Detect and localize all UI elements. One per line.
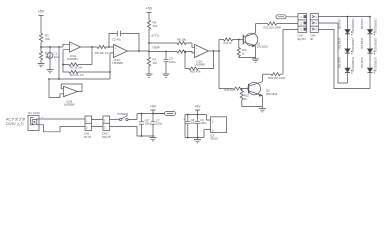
- ground under C1: [47, 70, 54, 73]
- svg-text:EQ-B4: EQ-B4: [298, 37, 307, 41]
- transistor Q2: [248, 74, 278, 106]
- resistor R10 47k feedback op3: [184, 51, 213, 74]
- svg-text:-: -: [65, 87, 66, 91]
- ground under Q1: [252, 58, 259, 63]
- svg-text:+5V: +5V: [38, 10, 45, 14]
- wire jack pin1: [39, 115, 85, 119]
- svg-text:+5V: +5V: [194, 105, 201, 109]
- test point TP1: [276, 15, 298, 19]
- wire rail1 to op3: [149, 42, 177, 44]
- svg-text:1: 1: [300, 15, 302, 19]
- svg-text:R5 10k 1%: R5 10k 1%: [95, 51, 109, 55]
- capacitor C3 100n: [164, 51, 177, 74]
- svg-text:C2 47p: C2 47p: [112, 38, 121, 42]
- svg-text:10u: 10u: [191, 121, 196, 125]
- capacitor C1 10u: [45, 46, 59, 69]
- svg-text:LED4 RD: LED4 RD: [360, 19, 364, 30]
- svg-text:2SC1815: 2SC1815: [266, 92, 278, 96]
- ground bottom rail 9V: [150, 136, 157, 141]
- wire LED column 1: [347, 17, 349, 83]
- svg-text:OSDR5113A: OSDR5113A: [351, 38, 355, 53]
- svg-text:OSDR5113A: OSDR5113A: [351, 57, 355, 72]
- svg-text:100n: 100n: [145, 122, 152, 126]
- svg-text:LED3 RD: LED3 RD: [338, 57, 342, 68]
- svg-text:1: 1: [315, 15, 317, 19]
- resistor R8 10k: [177, 38, 195, 48]
- wire drop to lower loop: [58, 46, 60, 79]
- resistor R12 1k base-emitter: [237, 39, 255, 58]
- ground 5V rail: [194, 137, 201, 143]
- connector CN3: [298, 14, 307, 41]
- svg-text:3: 3: [315, 27, 317, 31]
- connector CN2: [102, 116, 111, 139]
- test point TP2 fuse: [153, 112, 176, 116]
- op-amp U1B buffer: [49, 79, 82, 106]
- label AC adapter: [6, 117, 26, 127]
- resistor R15 1k base-emitter Q2: [240, 88, 262, 107]
- capacitor C8 10u: [183, 114, 195, 139]
- LED D3: [338, 57, 355, 73]
- wire LED top rail: [318, 16, 371, 18]
- svg-text:10k: 10k: [45, 37, 50, 41]
- op-amp U1A: [63, 42, 81, 61]
- ground under R2: [38, 64, 45, 67]
- svg-text:1M: 1M: [153, 61, 158, 65]
- svg-text:LM358N: LM358N: [195, 63, 206, 67]
- svg-text:1: 1: [86, 118, 88, 122]
- svg-text:LED6 RD: LED6 RD: [360, 57, 364, 68]
- resistor R9 10k: [177, 50, 195, 53]
- power +9V: [150, 105, 157, 115]
- svg-text:R10 47k: R10 47k: [190, 70, 201, 74]
- connector CN4: [310, 14, 318, 41]
- svg-text:R3 1k 1%: R3 1k 1%: [70, 66, 83, 70]
- svg-text:-: -: [71, 48, 72, 52]
- ground under Q2: [259, 107, 266, 112]
- resistor R5 10k series: [95, 45, 114, 55]
- power +5V left: [38, 10, 45, 34]
- svg-text:R14 1k: R14 1k: [225, 88, 234, 92]
- svg-text:R8 10k: R8 10k: [177, 38, 186, 42]
- svg-text:OSDR5113A: OSDR5113A: [373, 38, 377, 53]
- svg-text:R4 47k 1%: R4 47k 1%: [70, 73, 84, 77]
- svg-text:10u: 10u: [54, 55, 59, 59]
- svg-text:10k: 10k: [153, 24, 158, 28]
- svg-text:OSDR5113A: OSDR5113A: [373, 19, 377, 34]
- resistor R4 outer feedback: [62, 64, 110, 78]
- svg-text:R11 1k: R11 1k: [224, 41, 233, 45]
- svg-text:TEMP: TEMP: [152, 46, 160, 50]
- op-amp U2: [195, 45, 209, 67]
- capacitor C7 100u: [148, 114, 163, 137]
- wire 5V block left: [184, 115, 186, 138]
- resistor R7 1M: [147, 57, 157, 74]
- wire 5V top rail: [185, 115, 211, 121]
- wire op3 out: [209, 50, 220, 52]
- svg-text:POWER: POWER: [118, 112, 129, 116]
- wire 5V bottom rail: [185, 137, 204, 139]
- svg-text:DC JACK: DC JACK: [28, 111, 40, 115]
- wire CN2 pin2 to ground rail: [110, 127, 155, 137]
- wire pin2 loop: [318, 23, 347, 83]
- resistor R6 10k sensor: [147, 20, 157, 30]
- capacitor C9 100n: [195, 115, 207, 138]
- svg-text:9V IN: 9V IN: [84, 135, 91, 139]
- wire Q2 collector rail: [262, 73, 271, 75]
- LED D2: [338, 38, 355, 54]
- capacitor C2 feedback: [108, 31, 139, 51]
- wire node rail: [41, 44, 63, 47]
- connector CN1: [84, 116, 92, 139]
- svg-text:3: 3: [300, 28, 302, 32]
- wire feedback left: [62, 50, 64, 65]
- LED D6: [360, 57, 377, 73]
- svg-text:-: -: [196, 53, 197, 57]
- svg-text:OSDR5113A: OSDR5113A: [351, 19, 355, 34]
- svg-text:LED5 RD: LED5 RD: [360, 38, 364, 49]
- wire pin3 loop: [318, 30, 370, 89]
- wire LED column 2: [369, 17, 371, 89]
- svg-text:LM358N: LM358N: [64, 102, 75, 106]
- wire CN1-CN2: [92, 120, 104, 127]
- resistor R13 100: [264, 22, 299, 29]
- resistor R2 4k7: [39, 47, 50, 64]
- svg-text:2: 2: [86, 126, 88, 130]
- wire to pin3: [283, 30, 298, 75]
- svg-text:1: 1: [212, 120, 214, 124]
- svg-text:2: 2: [300, 21, 302, 25]
- resistor R14 1k lower base: [219, 87, 249, 92]
- svg-text:LED2 RD: LED2 RD: [338, 38, 342, 49]
- wire jack pin2: [39, 125, 85, 132]
- wire lower reference line: [48, 78, 110, 80]
- wire Q1 collector rail: [256, 23, 268, 25]
- op-amp U2A: [109, 45, 127, 80]
- wire op2 out: [128, 50, 150, 52]
- svg-text:4P: 4P: [310, 37, 313, 41]
- svg-text:1: 1: [104, 118, 106, 122]
- svg-text:2: 2: [104, 126, 106, 130]
- wire feedback up to output: [91, 47, 93, 65]
- svg-text:100n: 100n: [169, 60, 176, 64]
- node TEMP wires: [148, 30, 160, 57]
- svg-text:+5V: +5V: [146, 7, 153, 11]
- LED D5: [360, 38, 377, 54]
- LED D1: [338, 19, 355, 35]
- svg-text:DC9V 入力: DC9V 入力: [6, 121, 24, 126]
- svg-text:78L05: 78L05: [210, 137, 218, 141]
- svg-text:+: +: [196, 46, 198, 50]
- wire op1 out: [81, 46, 98, 48]
- svg-text:R13 100 1/4W: R13 100 1/4W: [264, 25, 282, 29]
- svg-text:ACアダプタ: ACアダプタ: [6, 117, 26, 122]
- svg-text:-: -: [115, 53, 116, 57]
- svg-text:LED1 RD: LED1 RD: [338, 19, 342, 30]
- wire rail2 to op3: [149, 51, 177, 53]
- svg-text:+: +: [115, 46, 117, 50]
- svg-text:+: +: [71, 43, 73, 47]
- svg-text:-: -: [46, 128, 47, 132]
- svg-text:LM358N: LM358N: [67, 57, 78, 61]
- svg-text:2: 2: [315, 21, 317, 25]
- wire base split: [218, 40, 220, 89]
- svg-text:+: +: [42, 115, 44, 119]
- DC jack J1: [28, 111, 40, 131]
- transistor Q1: [243, 24, 268, 58]
- switch SW1 POWER: [110, 112, 165, 120]
- power +5V reg: [194, 105, 201, 116]
- resistor R3 1k feedback: [63, 63, 92, 70]
- resistor R11 1k upper base: [219, 38, 243, 45]
- svg-text:R16 160 1/2W: R16 160 1/2W: [268, 76, 286, 80]
- svg-text:LM358N: LM358N: [113, 61, 124, 65]
- resistor R16 160: [268, 73, 286, 80]
- LED D4: [360, 19, 377, 35]
- node A junction: [40, 46, 42, 48]
- svg-text:SW 2P: SW 2P: [102, 135, 111, 139]
- svg-text:2SC1815: 2SC1815: [257, 45, 269, 49]
- ground under R7: [146, 74, 153, 77]
- regulator IC3 78L05: [204, 117, 227, 141]
- svg-text:100n: 100n: [200, 121, 207, 125]
- resistor R1 10k: [39, 33, 50, 44]
- svg-text:(KTY): (KTY): [152, 34, 160, 38]
- svg-text:OSDR5113A: OSDR5113A: [373, 57, 377, 72]
- svg-text:2: 2: [212, 128, 214, 132]
- power +5V sensor: [146, 7, 153, 21]
- svg-text:+9V: +9V: [150, 105, 157, 109]
- svg-text:100u: 100u: [156, 122, 163, 126]
- capacitor C6 100n: [139, 113, 151, 137]
- ground under C3: [163, 74, 170, 77]
